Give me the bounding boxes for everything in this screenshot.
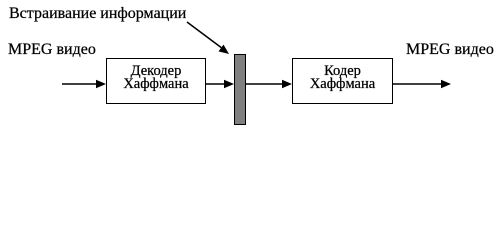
label "MPEG видео" (output, right) bbox=[406, 42, 494, 58]
block "Кодер Хаффмана" bbox=[292, 58, 393, 104]
arrow: "Встраивание информации" diagonally to embedder bar bbox=[187, 22, 229, 54]
arrow: input MPEG video to decoder bbox=[62, 80, 106, 88]
arrow: embedder bar to coder bbox=[246, 80, 292, 88]
block "Декодер Хаффмана" bbox=[106, 58, 206, 104]
arrow: coder to output MPEG video bbox=[392, 80, 451, 88]
arrow: decoder to embedder bar bbox=[205, 80, 234, 88]
label "Встраивание информации" bbox=[9, 6, 186, 22]
label "MPEG видео" (input, left) bbox=[8, 42, 96, 58]
embedder bar (gray) bbox=[234, 54, 246, 125]
